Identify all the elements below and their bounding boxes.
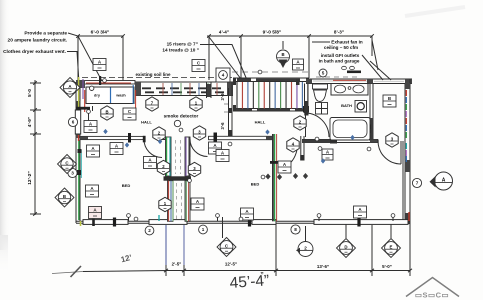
- svg-text:wash: wash: [115, 94, 126, 98]
- svg-text:BED: BED: [122, 183, 131, 188]
- svg-text:2: 2: [304, 246, 307, 251]
- svg-text:HALL: HALL: [255, 120, 266, 125]
- svg-text:E: E: [390, 245, 393, 250]
- svg-text:BATH: BATH: [341, 103, 352, 108]
- svg-text:B: B: [281, 52, 284, 57]
- svg-text:20 ampere laundry circuit.: 20 ampere laundry circuit.: [8, 38, 67, 44]
- svg-text:3’-9: 3’-9: [220, 93, 225, 101]
- svg-text:12’-2”: 12’-2”: [27, 171, 33, 185]
- svg-text:4’-9”: 4’-9”: [27, 117, 32, 127]
- svg-text:5: 5: [322, 71, 325, 76]
- svg-text:B: B: [63, 194, 66, 199]
- svg-text:6’-0 3/4”: 6’-0 3/4”: [91, 30, 110, 36]
- svg-text:”: ”: [260, 272, 264, 279]
- svg-text:3: 3: [71, 171, 74, 176]
- svg-text:14 treads @ 10 ”: 14 treads @ 10 ”: [162, 48, 199, 53]
- svg-text:8’-3”: 8’-3”: [334, 30, 344, 35]
- svg-text:A: A: [442, 178, 446, 184]
- svg-text:▭S▭C▭: ▭S▭C▭: [415, 291, 449, 300]
- svg-text:install GFI outlets: install GFI outlets: [321, 53, 360, 58]
- svg-text:Provide a separate: Provide a separate: [24, 31, 67, 37]
- svg-text:5’-0: 5’-0: [27, 89, 32, 97]
- svg-text:12’-5”: 12’-5”: [225, 262, 237, 267]
- svg-text:HALL: HALL: [141, 120, 152, 125]
- svg-text:6: 6: [72, 120, 75, 125]
- svg-text:B: B: [105, 109, 108, 114]
- svg-text:4: 4: [222, 73, 225, 78]
- svg-text:2’-5”: 2’-5”: [172, 262, 182, 267]
- svg-text:smoke detector: smoke detector: [164, 114, 199, 119]
- svg-text:existing soil line: existing soil line: [135, 72, 171, 77]
- svg-text:13’-6”: 13’-6”: [317, 264, 329, 269]
- svg-text:4’-4”: 4’-4”: [219, 30, 229, 35]
- svg-text:3’-6: 3’-6: [220, 122, 225, 130]
- svg-text:15 risers @ 7”: 15 risers @ 7”: [167, 42, 198, 47]
- svg-text:5’-0”: 5’-0”: [382, 264, 392, 269]
- svg-text:7: 7: [416, 181, 419, 186]
- svg-text:Exhaust fan in: Exhaust fan in: [331, 40, 363, 45]
- svg-text:ceiling – 50 cfm: ceiling – 50 cfm: [324, 45, 358, 50]
- svg-text:BED: BED: [251, 182, 260, 187]
- svg-text:dry: dry: [94, 94, 101, 98]
- svg-text:9’-0 5/8”: 9’-0 5/8”: [263, 30, 282, 36]
- svg-text:in bath and garage: in bath and garage: [319, 59, 360, 64]
- svg-text:2: 2: [148, 228, 151, 233]
- svg-text:D: D: [344, 245, 347, 250]
- svg-text:1: 1: [202, 227, 205, 232]
- svg-text:8: 8: [294, 227, 297, 232]
- svg-text:Clothes dryer exhaust vent.: Clothes dryer exhaust vent.: [3, 49, 66, 55]
